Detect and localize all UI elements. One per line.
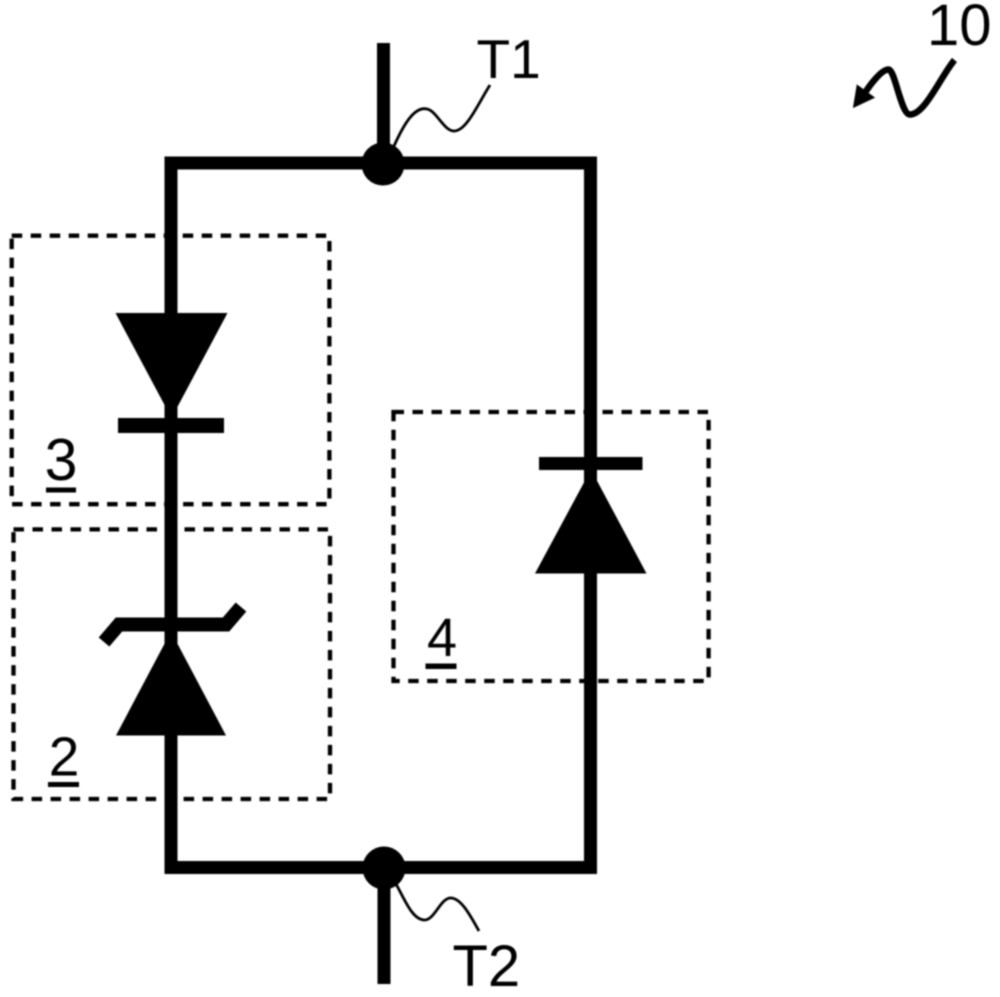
zener diode 2 triangle (pointing up): [116, 632, 226, 736]
leader arrow 10 squiggle shaft: [864, 60, 955, 115]
dashed box 4: [394, 412, 709, 681]
label 4 underline: [426, 664, 457, 670]
svg-text:4: 4: [427, 608, 457, 668]
dashed box 2: [14, 529, 331, 799]
label 3 underline: [46, 488, 76, 493]
label 2 underline: [48, 782, 79, 787]
leader arrow 10 arrowhead: [853, 84, 875, 108]
svg-text:2: 2: [49, 726, 80, 788]
node T1 junction dot: [362, 143, 405, 186]
node T2 junction dot: [363, 847, 406, 890]
diode 4 cathode bar: [539, 457, 643, 470]
svg-text:3: 3: [45, 427, 78, 493]
zener diode 2 cathode bar with bent tails: [104, 607, 241, 642]
dashed box 3: [12, 236, 330, 505]
leader line from T1 dot to label: [394, 85, 490, 146]
wire circuit loop (left/right branches, top/bottom rails): [171, 163, 591, 868]
wire T2 terminal stub: [378, 868, 391, 984]
leader line from T2 dot to label: [396, 884, 479, 931]
diode 3 cathode bar: [118, 418, 224, 433]
svg-text:T1: T1: [477, 28, 541, 90]
diode 3 triangle (pointing down): [116, 313, 228, 418]
svg-text:T2: T2: [453, 934, 521, 997]
wire T1 terminal stub: [377, 43, 390, 164]
svg-text:10: 10: [927, 0, 992, 58]
diode 4 triangle (pointing up): [535, 470, 647, 574]
